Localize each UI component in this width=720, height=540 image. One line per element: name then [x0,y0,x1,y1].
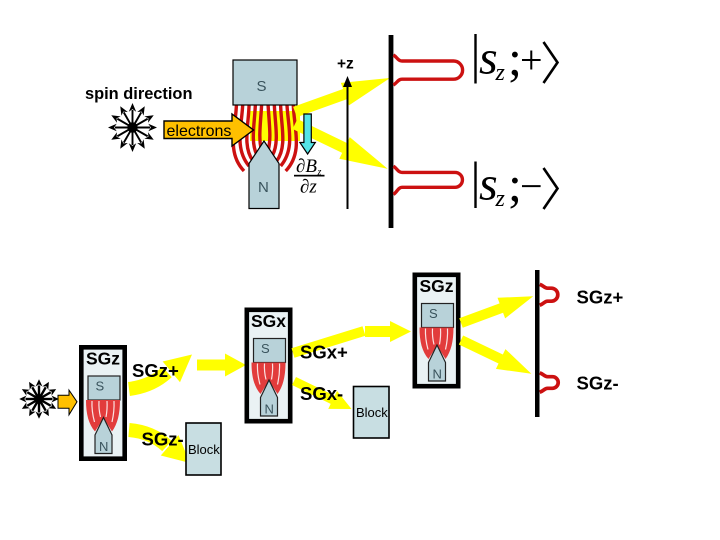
svg-text:electrons: electrons [167,123,232,140]
svg-text:S: S [261,341,270,356]
+z axis arrow [347,85,349,209]
svg-text:∂z: ∂z [300,177,317,198]
screen 1 [389,35,394,228]
svg-text:S: S [257,78,267,95]
block 2 [354,387,390,439]
spin star (bottom) [19,379,59,419]
beam up to screen (Sz+) [291,67,394,124]
screen 2 [535,270,540,417]
svg-text:z: z [495,60,506,86]
svg-text:−: − [520,164,543,209]
svg-text:N: N [433,367,442,382]
curved beam SGz- [129,430,167,446]
analyzer SGz #1 [81,347,124,458]
svg-text:SGz+: SGz+ [577,287,624,308]
beam SGz+ to SGx [197,354,246,377]
spin star (top) [108,103,157,152]
ket |sz;-> [474,156,557,212]
deposit blob SGz- [540,373,558,392]
curved beam SGz+ [129,372,167,389]
dBz/dz formula [296,156,322,198]
beam SGx+ diagonal [293,331,364,353]
electrons arrow [164,114,254,146]
beam SGx- [290,372,356,418]
beam into SGz #3 [365,321,411,342]
ket |sz;+> [474,30,557,86]
magnet N pole [249,141,279,209]
svg-text:SGx+: SGx+ [300,342,348,363]
svg-text:SGz-: SGz- [142,429,184,450]
svg-text:SGz: SGz [419,276,453,296]
svg-text:Block: Block [188,442,220,457]
svg-text:z: z [495,186,506,212]
input arrow (orange) [58,390,77,415]
beam through magnet gap [250,111,300,141]
block 1 [186,423,221,475]
magnet S pole [233,60,297,105]
magnet field lines [233,103,296,171]
svg-text:+: + [520,38,543,83]
svg-text:SGz+: SGz+ [132,360,179,381]
beam SGz+ out [457,286,537,333]
svg-text:SGz-: SGz- [577,373,619,394]
svg-text:SGx-: SGx- [300,383,343,404]
svg-text:N: N [258,179,269,196]
svg-text:spin direction: spin direction [85,85,192,103]
svg-text:N: N [265,402,274,417]
svg-text:+z: +z [337,56,354,73]
svg-text:S: S [96,379,105,394]
svg-text:∂B: ∂B [296,156,317,177]
analyzer SGz #3 [415,275,458,386]
svg-text:SGx: SGx [251,311,286,331]
beam SGz- out [456,330,536,384]
svg-text:S: S [429,306,438,321]
svg-text:Block: Block [356,405,388,420]
deposit blob Sz- [393,166,462,194]
beam down to screen (Sz-) [290,113,393,179]
svg-text:SGz: SGz [86,349,120,369]
analyzer SGx [247,310,290,421]
gradient arrow (cyan) [300,114,315,154]
deposit blob Sz+ [393,55,462,85]
deposit blob SGz+ [540,284,558,305]
svg-text:N: N [99,439,108,454]
